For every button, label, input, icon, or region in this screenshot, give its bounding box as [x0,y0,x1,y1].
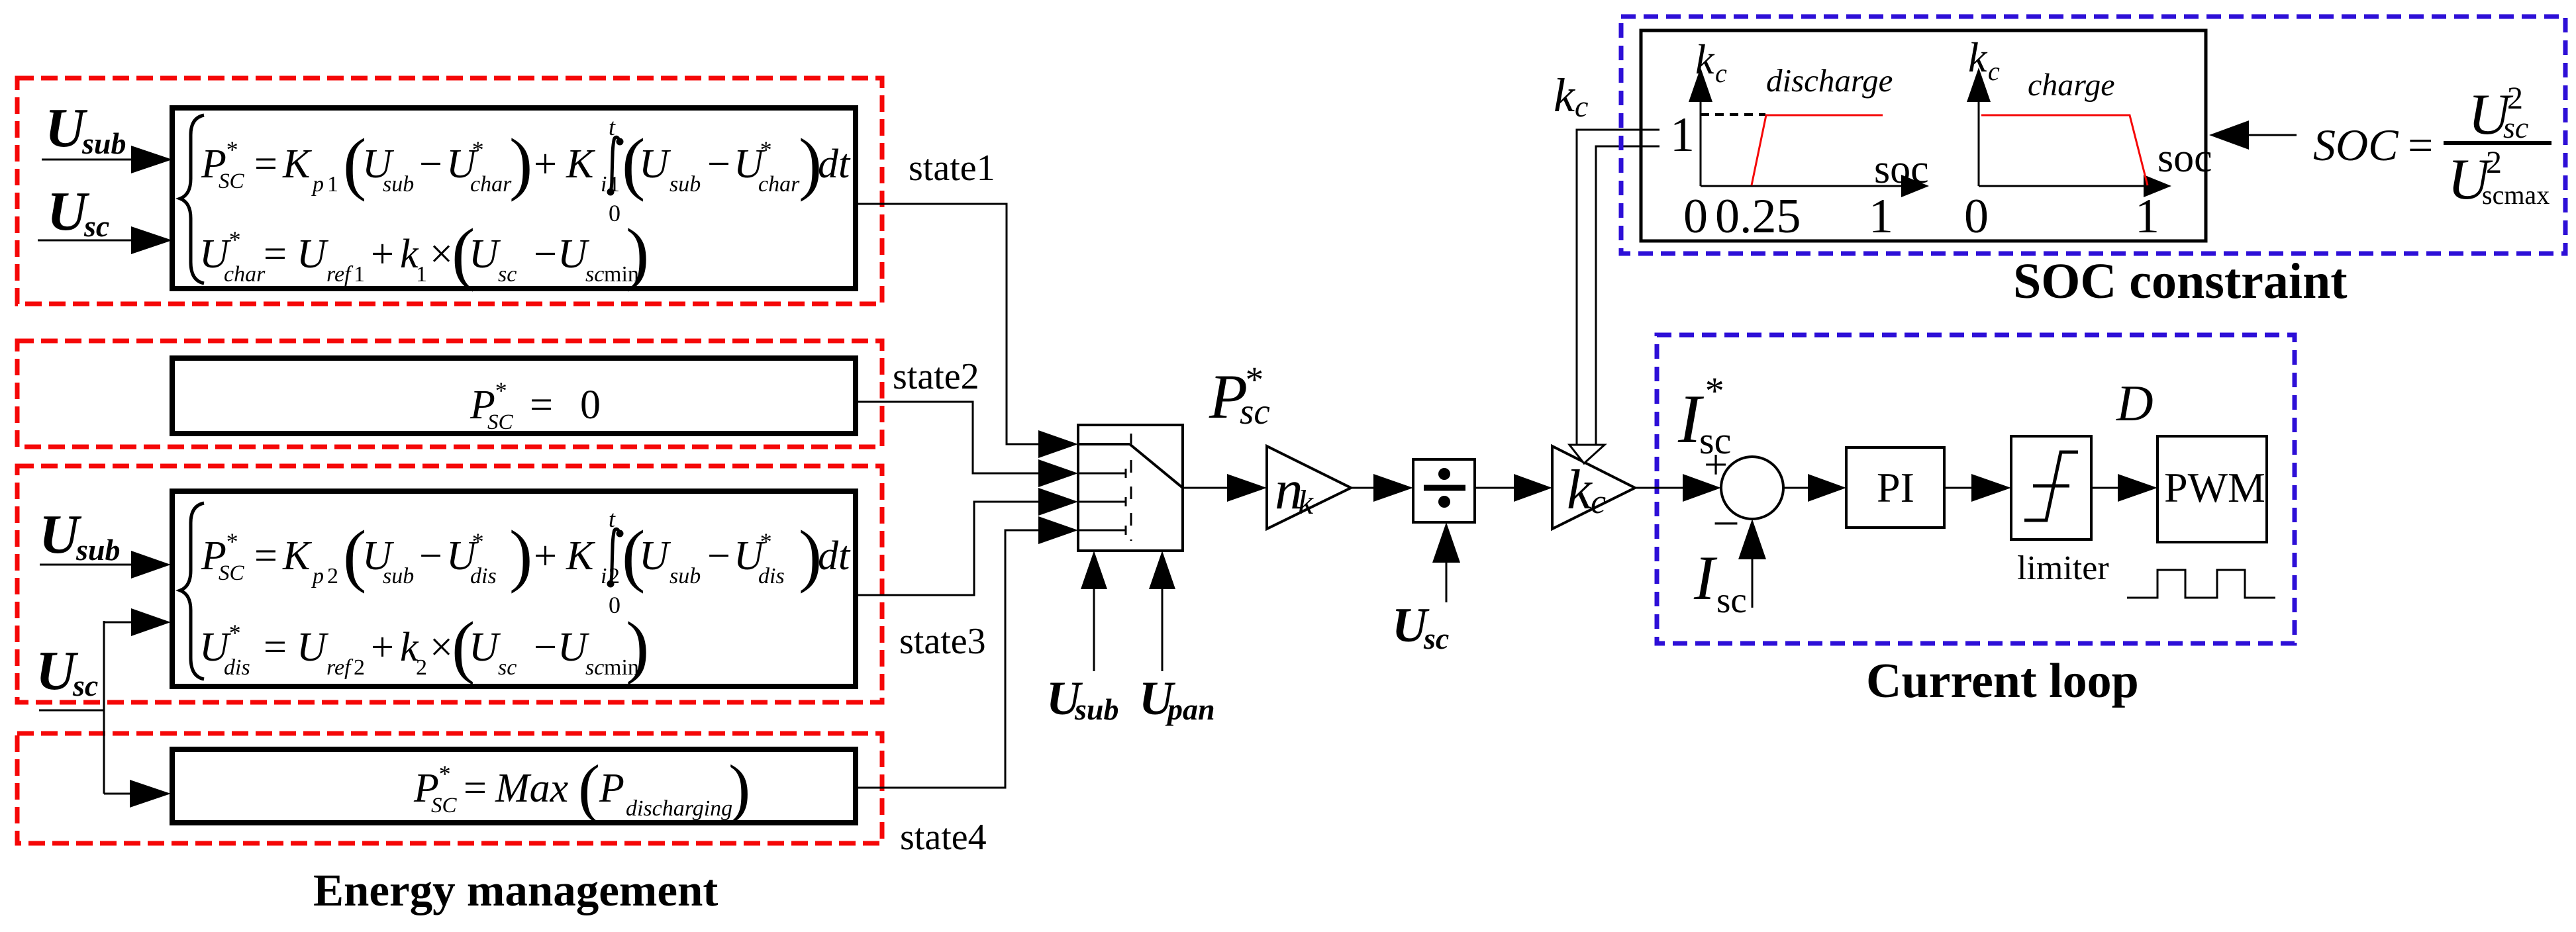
hollow arrowhead into kc gain [1569,445,1605,463]
wire U_sc into B3 [104,608,171,636]
red dashed box state4 region [17,733,882,843]
discharge plot x-axis [1701,175,1929,197]
wire state1 (B1 to mux input 1) [857,204,1041,444]
svg-text:Current loop: Current loop [1866,654,2139,708]
wire limiter to PWM [2091,474,2157,502]
wire state3 (B3 to mux input 3) [857,502,1041,595]
svg-text:Energy management: Energy management [313,865,718,915]
svg-text:U2sc: U2sc [2468,81,2528,147]
equation block B2 (P*sc = 0) [172,358,856,434]
svg-text:state2: state2 [893,356,979,397]
wire U_sc into B4 [104,780,171,808]
charge plot y-axis [1967,68,1991,186]
red dashed box state1 region [17,78,882,304]
gain triangle nk [1267,446,1351,529]
PWM block [2157,436,2267,542]
red dashed box state2 region [17,341,882,447]
wire mux to gain nk [1183,474,1267,502]
svg-text:charge: charge [2028,68,2115,103]
discharge plot y-axis [1689,68,1712,186]
PWM pulse waveform [2127,570,2275,598]
equation block B3 (discharging PI law) [172,491,856,686]
wire U_sub into B1 [42,146,172,173]
PI block [1846,447,1944,528]
wire U_sc into B1 [38,226,172,254]
blue dashed box SOC constraint [1621,17,2565,254]
discharge plot dashed unity level [1701,113,1765,116]
input label U_sc (bottom, shared) [36,640,98,702]
charge plot x-axis [1979,175,2171,197]
equation block B1 (charging PI law) [172,108,856,292]
svg-text:state3: state3 [899,621,986,662]
input label U_sub (box1) [45,97,126,160]
svg-text:D: D [2116,375,2154,432]
divider bottom input U_sc [1392,522,1460,655]
summing junction [1721,457,1783,519]
svg-text:discharge: discharge [1766,62,1893,99]
mux bottom input U_sub [1046,551,1118,726]
red dashed box state3 region [17,466,882,702]
svg-text:limiter: limiter [2017,549,2109,587]
svg-text:P*sc: P*sc [1209,359,1270,432]
feedback arrow into summing junction [1738,519,1766,608]
wire nk to divider [1351,474,1413,502]
svg-text:soc: soc [2157,136,2212,181]
wire PI to limiter [1944,474,2011,502]
svg-text:–: – [1714,495,1738,543]
svg-text:PI: PI [1877,464,1914,511]
mux / state selector switch [1078,425,1183,551]
svg-text:state4: state4 [900,817,987,858]
kc double-line signal wire from SOC constraint [1577,130,1660,446]
svg-text:P*SC=0: P*SC=0 [470,377,601,434]
mux bottom input U_pan [1139,551,1215,726]
SOC plots solid box [1641,30,2206,241]
wire kc gain to summing junction [1635,474,1721,502]
wire U_sc shared vertical [39,621,104,794]
SOC formula [2313,81,2551,212]
svg-text:+: + [1704,441,1728,488]
svg-text:SOC constraint: SOC constraint [2013,254,2348,309]
wire state4 (B4 to mux input 4) [857,530,1041,788]
svg-text:state1: state1 [909,148,995,189]
svg-text:SOC=: SOC= [2313,120,2433,170]
wire U_sub into B3 [40,551,171,579]
svg-text:PWM: PWM [2164,464,2265,511]
equation block B4 (max discharge) [172,749,856,825]
limiter block [2011,436,2109,587]
divider block [1413,459,1475,522]
wire divider to gain kc [1475,474,1552,502]
discharge plot red curve [1752,115,1883,185]
svg-text:soc: soc [1874,147,1929,192]
wire summing junction to PI [1783,474,1846,502]
SOC formula arrow into plots box [2209,120,2297,150]
wire state2 (B2 to mux input 2) [857,402,1041,473]
label P*sc (mux output) [1209,359,1270,432]
blue dashed box current loop [1657,335,2295,643]
gain triangle kc [1552,446,1635,529]
charge plot red curve [1981,115,2148,185]
input label U_sc (box1) [47,181,109,243]
input label U_sub (box3) [39,504,120,567]
section title: Energy management [313,865,718,915]
